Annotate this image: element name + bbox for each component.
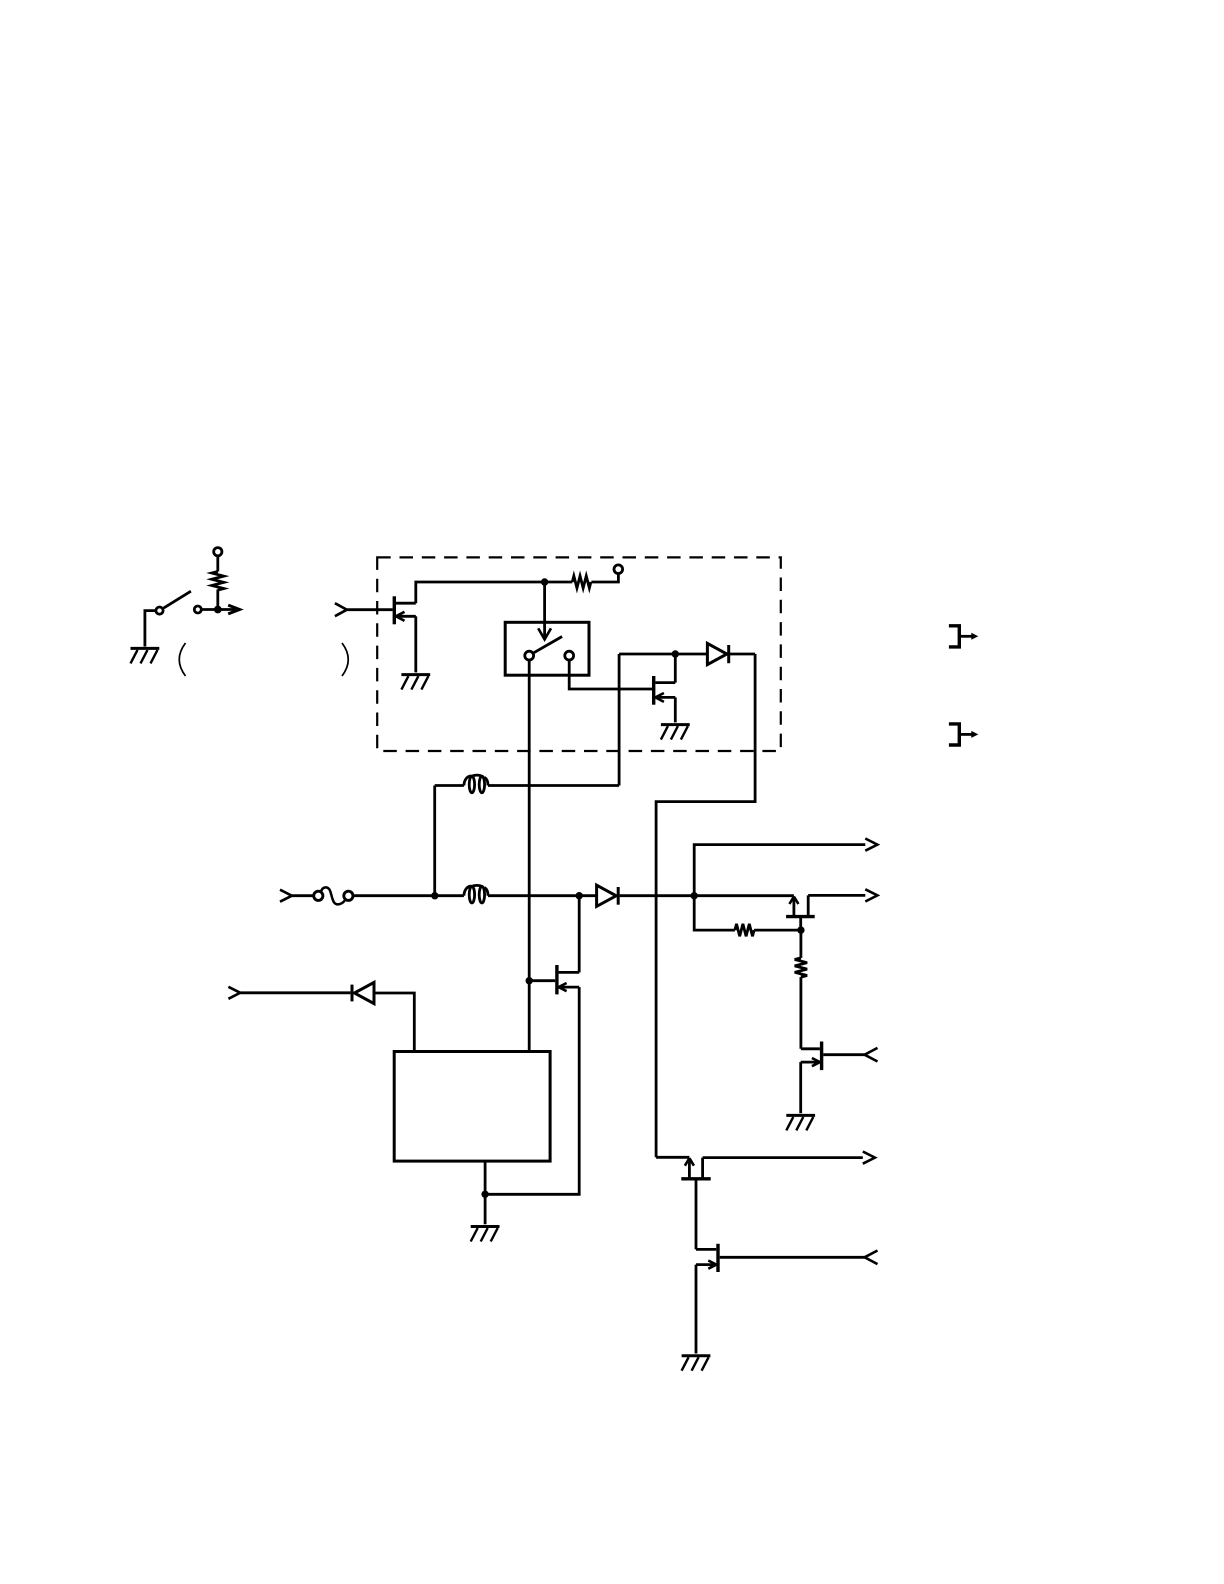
input arrow head (base Q5) (865, 1048, 878, 1062)
input arrow head (base Q7) (865, 1251, 878, 1265)
wire left leg down to L1 (618, 654, 621, 786)
wire Q2 emitter to ground (674, 697, 677, 722)
output arrow head 2 (865, 889, 877, 901)
transistor Q5 (801, 1042, 865, 1071)
main line to diode D1 (488, 894, 597, 897)
relay lever (534, 637, 562, 653)
wire node N3 left leg (619, 653, 675, 656)
ground G6 (682, 1356, 711, 1371)
parenthesis ( (179, 643, 185, 676)
transistor Q6 (series FET lower) (656, 1157, 711, 1249)
wire R4 to terminal T2 (591, 574, 618, 582)
transistor Q1 (394, 596, 416, 624)
wire R1 to node (216, 590, 219, 610)
diode D3 (pointing left) (352, 982, 374, 1003)
arrow A1 (to right from node) (218, 605, 240, 614)
wire Q4 drain up to main line (578, 896, 581, 973)
node dot N9 (481, 1191, 488, 1198)
wire D2 cathode down and left (656, 654, 755, 1157)
input arrow IN3 (228, 987, 240, 999)
wire Q4 source down and left to node N9 (485, 987, 579, 1194)
wire IC box bottom to ground (484, 1161, 487, 1224)
output arrow head 3 (863, 1152, 875, 1164)
relay contact right (565, 651, 574, 660)
wire IN3 to D3 (240, 991, 350, 994)
wire relay right contact to Q2 base (569, 661, 652, 689)
wire Q5 emitter to ground (799, 1062, 802, 1113)
dashed enclosure (377, 557, 781, 751)
transistor Q3 (series FET) (786, 895, 815, 930)
wire Q7 emitter to ground (695, 1265, 698, 1354)
inductor L1 (upper) (435, 775, 619, 793)
connector CONN2 (949, 724, 978, 745)
terminal T1 (214, 548, 222, 556)
node dot N4 (431, 892, 438, 899)
connector CONN1 (949, 626, 978, 647)
inductor L2 (lower) (464, 885, 488, 903)
transistor Q4 (557, 965, 579, 994)
wire contact to node (202, 608, 218, 611)
relay box (505, 622, 589, 675)
wire T1 to R1 (216, 556, 219, 572)
wire IN2 to fuse (292, 894, 314, 897)
wire Q1 collector up to node (416, 582, 545, 603)
parenthesis ) (342, 643, 348, 676)
wire node to R4 (545, 581, 573, 584)
node dot N3 (672, 650, 679, 657)
branch up to output arrow 1 (694, 845, 865, 896)
node dot N8 (Q4 gate tap) (526, 977, 533, 984)
ground G5 (786, 1115, 815, 1130)
wire L1 left down to main line (433, 786, 436, 896)
diode D1 (597, 885, 619, 906)
arrow down into relay box (538, 582, 551, 639)
switch S1 (spare contact, top-left) (156, 591, 201, 614)
node dot N2 (541, 578, 548, 585)
wire Q1 emitter to ground (414, 616, 417, 672)
resistor R1 (pull-up) (212, 572, 224, 591)
ground G4 (471, 1227, 500, 1242)
ground G1 (131, 648, 160, 663)
wire IN1 to Q1 base (347, 608, 393, 611)
node dot N6 (691, 892, 698, 899)
resistor R3 (795, 930, 807, 1049)
wire Q6 drain to output arrow 3 (703, 1156, 863, 1159)
node dot N7 (797, 926, 804, 933)
branch from N6 down to R2 (694, 896, 735, 930)
transistor Q2 (654, 676, 676, 705)
resistor R2 (735, 924, 754, 936)
wire N8 to Q4 gate (529, 979, 555, 982)
node dot N5 (576, 892, 583, 899)
node dot N1 (214, 606, 222, 614)
diode D2 (675, 643, 755, 664)
wire Q2 collector to node N3 (674, 654, 677, 683)
ground G3 (661, 725, 690, 740)
IC box U1 (394, 1052, 550, 1162)
output arrow head 1 (865, 839, 877, 851)
transistor Q7 (696, 1244, 865, 1272)
terminal T2 (614, 565, 623, 574)
fuse F1 (314, 887, 353, 904)
wire R2 to node N7 (754, 929, 801, 932)
wire S1 pivot to ground (145, 611, 155, 647)
resistor R4 (572, 576, 591, 588)
wire D3 to IC box (374, 993, 414, 1052)
main line right of D1 (620, 894, 794, 897)
input arrow IN1 (335, 603, 347, 616)
input arrow IN2 (antenna line) (280, 890, 292, 902)
relay contact left (525, 651, 534, 660)
wire relay left contact down to IC box (528, 661, 531, 1052)
ground G2 (401, 675, 430, 690)
main line left segment (353, 894, 464, 897)
wire Q3 drain to output arrow 2 (808, 894, 865, 897)
